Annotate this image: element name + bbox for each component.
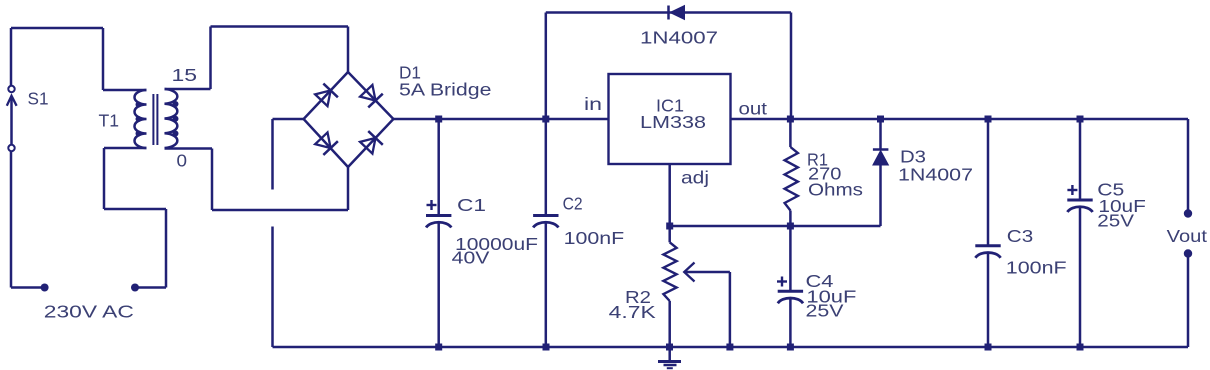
svg-text:out: out — [739, 99, 768, 119]
svg-text:C1: C1 — [457, 195, 486, 215]
svg-text:4.7K: 4.7K — [609, 302, 657, 322]
svg-text:5A Bridge: 5A Bridge — [399, 80, 492, 100]
svg-text:230V AC: 230V AC — [44, 302, 134, 322]
svg-text:D3: D3 — [900, 147, 926, 167]
svg-text:15: 15 — [172, 65, 198, 85]
svg-text:25V: 25V — [1097, 211, 1134, 231]
svg-text:C3: C3 — [1007, 226, 1033, 246]
svg-text:C2: C2 — [563, 194, 583, 214]
svg-text:T1: T1 — [99, 111, 120, 131]
svg-text:Vout: Vout — [1167, 226, 1208, 246]
svg-text:1N4007: 1N4007 — [640, 27, 718, 47]
svg-text:0: 0 — [177, 151, 188, 171]
svg-text:in: in — [584, 94, 602, 114]
svg-text:adj: adj — [681, 168, 709, 188]
svg-text:100nF: 100nF — [1006, 258, 1067, 278]
svg-text:1N4007: 1N4007 — [898, 165, 973, 185]
svg-text:LM338: LM338 — [640, 112, 706, 132]
svg-text:25V: 25V — [806, 301, 845, 321]
svg-text:S1: S1 — [28, 89, 49, 109]
svg-text:Ohms: Ohms — [808, 180, 863, 200]
svg-text:40V: 40V — [452, 248, 490, 268]
svg-text:100nF: 100nF — [564, 228, 625, 248]
